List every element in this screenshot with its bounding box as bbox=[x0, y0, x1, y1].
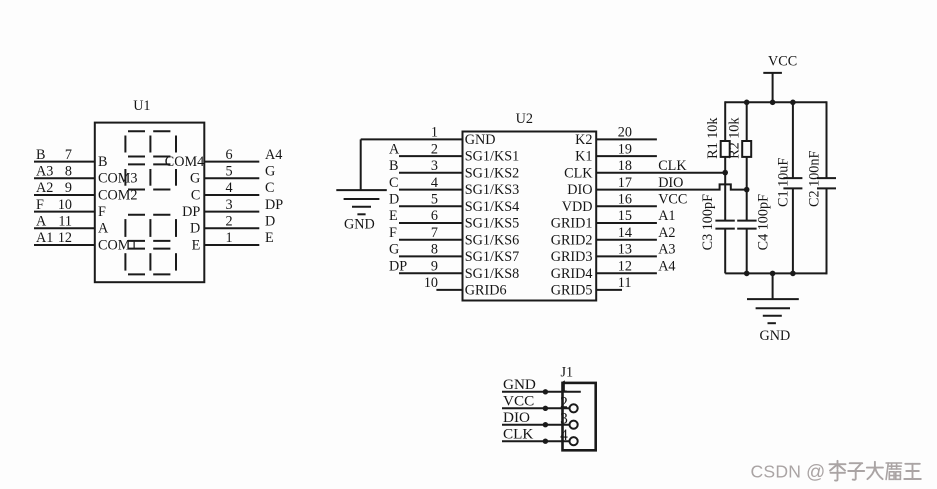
wire U2 pin1 to ground bbox=[360, 139, 362, 190]
U2 pin 3 wire bbox=[389, 158, 463, 174]
U1 inner pin names left bbox=[98, 154, 137, 253]
svg-text:C4 100pF: C4 100pF bbox=[756, 194, 772, 250]
svg-text:G: G bbox=[265, 164, 275, 180]
svg-text:4: 4 bbox=[431, 175, 438, 191]
J1 pin 2 wire (net VCC) bbox=[502, 393, 578, 413]
U2 pin 6 wire bbox=[389, 208, 463, 224]
watermark char Wang bbox=[904, 464, 921, 479]
U1 reference label bbox=[133, 98, 150, 114]
svg-text:GND: GND bbox=[465, 132, 496, 148]
svg-text:CLK: CLK bbox=[658, 158, 687, 174]
svg-text:VCC: VCC bbox=[658, 192, 687, 208]
svg-text:19: 19 bbox=[618, 141, 632, 157]
svg-text:C: C bbox=[265, 180, 274, 196]
wire rail to ground bbox=[772, 273, 774, 299]
U2 inner pin names left bbox=[465, 132, 519, 299]
svg-text:DP: DP bbox=[389, 258, 407, 274]
svg-text:COM4: COM4 bbox=[165, 154, 204, 170]
svg-text:SG1/KS2: SG1/KS2 bbox=[465, 165, 519, 181]
svg-text:F: F bbox=[36, 197, 44, 213]
svg-text:GND: GND bbox=[344, 216, 375, 232]
svg-text:GND: GND bbox=[760, 328, 791, 344]
svg-text:13: 13 bbox=[618, 242, 632, 258]
svg-text:GND: GND bbox=[503, 376, 536, 393]
svg-text:3: 3 bbox=[431, 158, 438, 174]
svg-text:E: E bbox=[265, 230, 274, 246]
junction top rail at C1 bbox=[790, 100, 796, 106]
svg-text:R2 10k: R2 10k bbox=[727, 117, 743, 159]
svg-text:C1 10uF: C1 10uF bbox=[776, 158, 792, 207]
svg-text:GRID4: GRID4 bbox=[551, 266, 593, 282]
capacitor C3 100pF bbox=[700, 173, 735, 274]
svg-text:9: 9 bbox=[65, 180, 72, 196]
U1 pin 4 wire (net C) bbox=[204, 180, 274, 196]
U2 pin 1 wire bbox=[361, 125, 463, 141]
junction CLK/R1 bbox=[722, 170, 728, 176]
svg-text:SG1/KS6: SG1/KS6 bbox=[465, 232, 519, 248]
U2 pin 4 wire bbox=[389, 175, 463, 191]
svg-text:COM3: COM3 bbox=[98, 171, 137, 187]
svg-text:DP: DP bbox=[265, 197, 283, 213]
svg-text:18: 18 bbox=[618, 158, 632, 174]
svg-text:14: 14 bbox=[618, 225, 632, 241]
svg-text:G: G bbox=[389, 242, 399, 258]
U2 pin 10 wire bbox=[424, 275, 463, 291]
U1 pin 10 wire (net F) bbox=[34, 197, 95, 213]
svg-text:2: 2 bbox=[431, 141, 438, 157]
svg-text:GRID2: GRID2 bbox=[551, 232, 593, 248]
svg-text:4: 4 bbox=[226, 180, 233, 196]
svg-text:C3 100pF: C3 100pF bbox=[700, 194, 716, 250]
svg-text:@: @ bbox=[806, 462, 825, 483]
U2 pin 8 wire bbox=[389, 242, 463, 258]
svg-text:SG1/KS5: SG1/KS5 bbox=[465, 216, 519, 232]
watermark char Li bbox=[830, 461, 846, 481]
junction bottom rail at C1 bbox=[790, 271, 796, 277]
svg-text:DIO: DIO bbox=[503, 409, 530, 426]
svg-text:A4: A4 bbox=[265, 147, 282, 163]
U1 pin 3 wire (net DP) bbox=[204, 197, 283, 213]
svg-text:A3: A3 bbox=[658, 242, 675, 258]
svg-text:SG1/KS3: SG1/KS3 bbox=[465, 182, 519, 198]
watermark char Zi bbox=[848, 463, 864, 480]
capacitor C1 10uF bbox=[776, 102, 803, 273]
svg-text:C: C bbox=[191, 187, 200, 203]
svg-text:GRID1: GRID1 bbox=[551, 216, 593, 232]
svg-text:10: 10 bbox=[58, 197, 72, 213]
svg-text:3: 3 bbox=[226, 197, 233, 213]
svg-text:DP: DP bbox=[182, 204, 200, 220]
junction DIO/R2 bbox=[744, 187, 750, 193]
svg-text:E: E bbox=[192, 237, 201, 253]
junction top rail at VCC bbox=[770, 100, 776, 106]
svg-text:A4: A4 bbox=[658, 258, 675, 274]
svg-text:B: B bbox=[36, 147, 45, 163]
svg-text:F: F bbox=[98, 204, 106, 220]
U1 seven-segment digits lower row bbox=[125, 215, 176, 275]
U1 pin 1 wire (net E) bbox=[204, 230, 273, 246]
svg-text:CSDN: CSDN bbox=[751, 461, 802, 481]
svg-text:SG1/KS8: SG1/KS8 bbox=[465, 266, 519, 282]
svg-text:A1: A1 bbox=[36, 230, 53, 246]
resistor R1 10k bbox=[705, 101, 730, 172]
watermark CSDN bbox=[751, 461, 826, 483]
svg-text:COM1: COM1 bbox=[98, 237, 137, 253]
svg-text:G: G bbox=[190, 171, 200, 187]
svg-text:A3: A3 bbox=[36, 164, 53, 180]
U1 inner pin names right bbox=[165, 154, 204, 253]
svg-text:9: 9 bbox=[431, 258, 438, 274]
svg-text:1: 1 bbox=[226, 230, 233, 246]
svg-text:GRID3: GRID3 bbox=[551, 249, 593, 265]
svg-text:5: 5 bbox=[226, 164, 233, 180]
svg-text:U1: U1 bbox=[133, 98, 150, 114]
U2 reference label bbox=[516, 111, 533, 127]
svg-text:A2: A2 bbox=[658, 225, 675, 241]
U2 pin 13 wire bbox=[596, 242, 675, 258]
svg-text:A: A bbox=[36, 214, 47, 230]
svg-text:GRID5: GRID5 bbox=[551, 283, 593, 299]
svg-text:2: 2 bbox=[226, 214, 233, 230]
svg-text:E: E bbox=[389, 208, 398, 224]
svg-text:C: C bbox=[389, 175, 398, 191]
svg-text:D: D bbox=[190, 221, 200, 237]
svg-text:11: 11 bbox=[58, 214, 72, 230]
U2 pin 2 wire bbox=[389, 141, 463, 157]
junction bottom rail at C4 bbox=[744, 271, 750, 277]
svg-text:VDD: VDD bbox=[562, 199, 593, 215]
U2 pin 9 wire bbox=[389, 258, 463, 274]
svg-text:F: F bbox=[389, 225, 397, 241]
resistor R2 10k bbox=[727, 101, 752, 189]
U1 pin 2 wire (net D) bbox=[204, 214, 275, 230]
svg-text:16: 16 bbox=[618, 192, 632, 208]
U2 pin 5 wire bbox=[389, 192, 463, 208]
svg-text:2: 2 bbox=[560, 394, 568, 411]
svg-text:6: 6 bbox=[431, 208, 438, 224]
svg-text:SG1/KS4: SG1/KS4 bbox=[465, 199, 519, 215]
svg-text:K2: K2 bbox=[575, 132, 592, 148]
svg-text:A: A bbox=[98, 221, 109, 237]
wire VCC top rail bbox=[725, 101, 826, 103]
J1 pin 4 wire (net CLK) bbox=[502, 426, 578, 446]
svg-text:1: 1 bbox=[560, 378, 568, 395]
svg-text:SG1/KS1: SG1/KS1 bbox=[465, 149, 519, 165]
svg-text:DIO: DIO bbox=[658, 175, 683, 191]
svg-text:6: 6 bbox=[226, 147, 233, 163]
svg-text:GRID6: GRID6 bbox=[465, 283, 507, 299]
svg-text:11: 11 bbox=[618, 275, 632, 291]
IC U2 box bbox=[463, 132, 597, 301]
U1 pin 12 wire (net A1) bbox=[34, 230, 95, 246]
U2 pin 15 wire bbox=[596, 208, 675, 224]
svg-text:20: 20 bbox=[618, 125, 632, 141]
svg-text:CLK: CLK bbox=[503, 426, 533, 443]
wire bottom rail bbox=[725, 272, 826, 274]
svg-text:A2: A2 bbox=[36, 180, 53, 196]
U1 pin 9 wire (net A2) bbox=[34, 180, 95, 196]
capacitor C2 100nF bbox=[807, 101, 837, 274]
U2 inner pin names right bbox=[551, 132, 594, 299]
svg-text:12: 12 bbox=[618, 258, 632, 274]
svg-text:B: B bbox=[98, 154, 107, 170]
U2 pin 18 wire bbox=[596, 158, 724, 174]
svg-text:3: 3 bbox=[560, 411, 568, 428]
capacitor C4 100pF bbox=[737, 190, 771, 274]
svg-text:K1: K1 bbox=[575, 149, 592, 165]
svg-text:VCC: VCC bbox=[768, 53, 797, 69]
svg-text:4: 4 bbox=[560, 427, 568, 444]
U2 pin 20 wire bbox=[596, 125, 657, 141]
junction top rail at R2 bbox=[744, 100, 750, 106]
U1 pin 8 wire (net A3) bbox=[34, 164, 95, 180]
U1 pin 7 wire (net B) bbox=[34, 147, 95, 163]
watermark char Da bbox=[867, 462, 883, 479]
U2 pin 14 wire bbox=[596, 225, 675, 241]
svg-text:17: 17 bbox=[618, 175, 632, 191]
svg-text:12: 12 bbox=[58, 230, 72, 246]
svg-text:SG1/KS7: SG1/KS7 bbox=[465, 249, 519, 265]
U2 pin 12 wire bbox=[596, 258, 675, 274]
display U1 box bbox=[95, 123, 205, 283]
ground symbol GND (right) bbox=[747, 299, 799, 344]
svg-text:C2 100nF: C2 100nF bbox=[807, 151, 823, 207]
svg-text:10: 10 bbox=[424, 275, 438, 291]
svg-text:D: D bbox=[389, 192, 399, 208]
svg-text:U2: U2 bbox=[516, 111, 533, 127]
U2 pin 7 wire bbox=[389, 225, 463, 241]
svg-text:1: 1 bbox=[431, 125, 438, 141]
U1 seven-segment digits upper row bbox=[125, 131, 176, 189]
U1 pin 11 wire (net A) bbox=[34, 214, 95, 230]
svg-text:5: 5 bbox=[431, 192, 438, 208]
U1 pin 5 wire (net G) bbox=[204, 164, 275, 180]
svg-text:7: 7 bbox=[65, 147, 72, 163]
svg-text:8: 8 bbox=[431, 242, 438, 258]
svg-text:A: A bbox=[389, 141, 400, 157]
watermark char Mo bbox=[886, 463, 902, 480]
svg-text:CLK: CLK bbox=[564, 165, 593, 181]
VCC power symbol bbox=[763, 53, 797, 102]
J1 pin 1 wire (net GND) bbox=[502, 376, 581, 395]
J1 reference label bbox=[561, 364, 574, 380]
U1 pin 6 wire (net A4) bbox=[204, 147, 282, 163]
J1 pin 3 wire (net DIO) bbox=[502, 409, 578, 429]
svg-text:VCC: VCC bbox=[503, 393, 534, 410]
svg-text:15: 15 bbox=[618, 208, 632, 224]
svg-text:R1 10k: R1 10k bbox=[705, 117, 721, 159]
junction bottom rail at GND bbox=[770, 271, 776, 277]
svg-text:7: 7 bbox=[431, 225, 438, 241]
U2 pin 17 wire bbox=[596, 175, 746, 191]
svg-text:B: B bbox=[389, 158, 398, 174]
svg-text:8: 8 bbox=[65, 164, 72, 180]
U2 pin 11 wire bbox=[596, 275, 631, 291]
U2 pin 16 wire bbox=[596, 192, 687, 208]
U2 pin 19 wire bbox=[596, 141, 657, 157]
svg-text:A1: A1 bbox=[658, 208, 675, 224]
connector J1 box bbox=[563, 383, 596, 450]
svg-text:D: D bbox=[265, 214, 275, 230]
svg-text:DIO: DIO bbox=[567, 182, 592, 198]
ground symbol GND (left) bbox=[336, 190, 387, 232]
